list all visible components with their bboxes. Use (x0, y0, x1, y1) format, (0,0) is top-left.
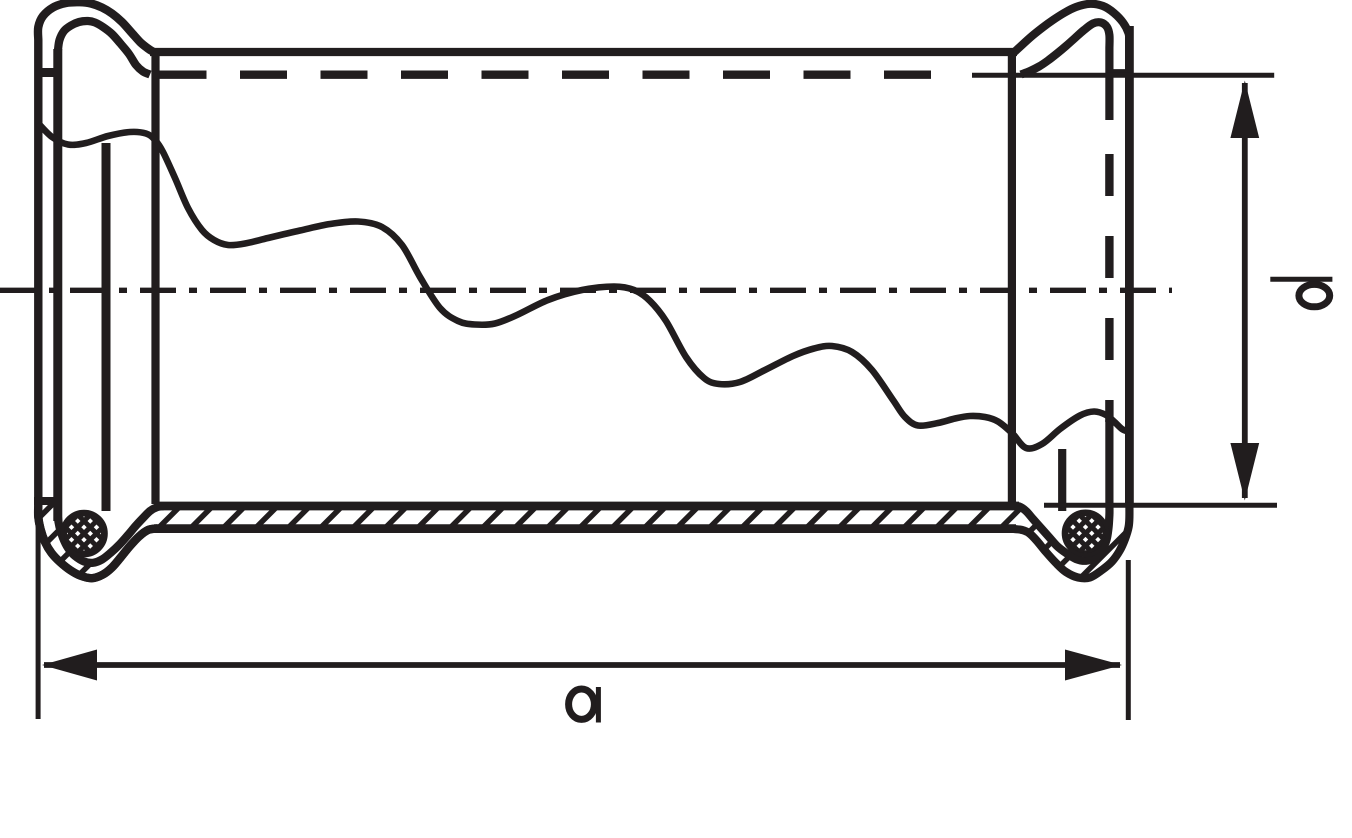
extension line left for dimension a (36, 515, 41, 719)
right bead tangent edge line (1008, 52, 1016, 504)
left bead inner lower curve (58, 505, 163, 563)
dimension line d (1242, 83, 1248, 498)
left end face edge tick (top) (36, 68, 55, 77)
extension line right for dimension a (1126, 560, 1131, 720)
right end face edge tick (top) (1106, 69, 1128, 77)
centerline (horizontal axis, dash-dot) (0, 288, 1172, 293)
arrowhead a right (1065, 650, 1122, 681)
right bead outer lower curve (1014, 505, 1129, 578)
top outer surface line (150, 48, 1017, 56)
dimension line a (44, 662, 1120, 668)
arrowhead d bottom (1230, 443, 1259, 501)
extension line top for dimension d (972, 73, 1274, 78)
right hidden inner edge (dashed vertical) (1105, 154, 1113, 422)
arrowhead d top (1230, 81, 1259, 139)
right bead outer contour (1014, 4, 1129, 52)
left inner lip edge line (102, 143, 111, 511)
bottom outer surface line (154, 524, 1016, 533)
label a (569, 687, 599, 723)
O-ring right (cross-section) (1065, 513, 1106, 554)
bottom inner surface line (bore) (156, 502, 1019, 511)
left inner edge vertical (53, 49, 62, 521)
top inner surface hidden line (dashed) (160, 70, 936, 78)
right inner lip edge line (1058, 449, 1066, 511)
O-ring left (cross-section) (64, 513, 105, 554)
section hatching of bottom wall (0, 485, 1238, 595)
left bead tangent edge line (151, 52, 159, 504)
right bead inner lower curve (sectioned) (1012, 420, 1109, 561)
left bead inner contour upper curve (58, 21, 150, 75)
label d (rotated 90deg CCW) (1270, 279, 1332, 307)
right bead inner contour upper curve (1021, 22, 1110, 120)
left bead outer lower curve (38, 505, 158, 578)
freehand break line (wavy) (38, 123, 1129, 449)
left end face edge tick (bottom) (34, 497, 55, 505)
right outer edge vertical (1125, 26, 1134, 507)
left bead outer contour (38, 2, 158, 578)
extension line bottom for dimension d (1044, 503, 1277, 508)
arrowhead a left (42, 650, 97, 681)
